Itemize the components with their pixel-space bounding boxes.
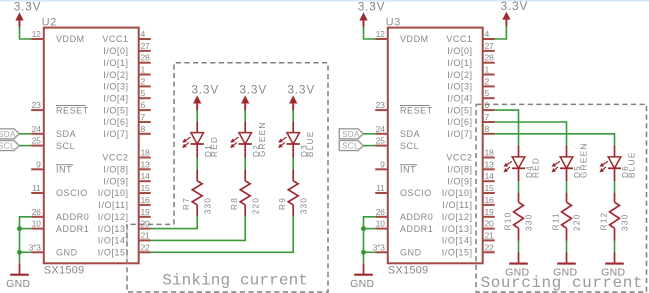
window top strip (decorative) (0, 0, 649, 2)
pin 26 ADDR0 (U3 left) (375, 207, 433, 222)
supply +3.3V D1 anode (191, 83, 219, 111)
svg-text:I/O[2]: I/O[2] (103, 70, 128, 80)
pin 2 I/O[3] (U3 right) (447, 76, 494, 91)
svg-text:I/O[6]: I/O[6] (103, 117, 128, 127)
svg-text:RED: RED (210, 136, 219, 157)
pin 4 VCC1 (U2 right) (102, 29, 150, 44)
wire R9 to pin row 18 (151, 216, 294, 252)
svg-text:BLUE: BLUE (306, 130, 315, 157)
svg-text:VDDM: VDDM (56, 34, 85, 44)
supply +3.3V VDDM U2 (14, 0, 42, 28)
svg-text:R9: R9 (278, 197, 287, 210)
pin 28 I/O[1] (U3 right) (447, 53, 494, 68)
svg-text:OSCIO: OSCIO (400, 188, 432, 198)
wire D1 to R7 (196, 158, 198, 170)
wire GND pin to rail U2 (20, 251, 32, 253)
pin 13 I/O[8] (U3 right) (447, 159, 494, 174)
wire ADDR1 to gnd rail U2 (20, 228, 32, 230)
svg-text:VCC2: VCC2 (446, 153, 472, 163)
svg-text:GND: GND (350, 278, 374, 290)
D6 anode lead (614, 145, 616, 157)
svg-text:330: 330 (299, 197, 308, 215)
svg-text:8: 8 (141, 124, 146, 134)
pin 5 I/O[4] (U3 right) (447, 88, 494, 103)
svg-text:8: 8 (485, 124, 490, 134)
pin 13 I/O[8] (U2 right) (103, 159, 150, 174)
svg-text:I/O[13]: I/O[13] (442, 224, 473, 234)
wire VCC1 U3 to 3.3V (495, 26, 507, 39)
svg-text:I/O[7]: I/O[7] (103, 129, 128, 139)
pin 4 VCC1 (U3 right) (446, 29, 494, 44)
svg-text:3.3V: 3.3V (191, 83, 219, 97)
svg-text:14: 14 (141, 171, 150, 181)
svg-text:SCL: SCL (400, 141, 419, 151)
pin 23 RESET (U2 left) (31, 100, 89, 115)
pin 5 I/O[4] (U2 right) (103, 88, 150, 103)
R10 top lead (518, 193, 520, 202)
svg-text:3*3: 3*3 (29, 242, 42, 252)
svg-text:R8: R8 (230, 197, 239, 210)
svg-text:330: 330 (621, 213, 630, 231)
svg-text:4: 4 (141, 29, 146, 39)
svg-text:I/O[4]: I/O[4] (447, 94, 472, 104)
wire supply to D3 (292, 110, 294, 122)
pin 18 VCC2 (U3 right) (446, 148, 494, 163)
svg-text:13: 13 (141, 159, 150, 169)
resistor R9 330 (288, 181, 298, 205)
svg-text:14: 14 (485, 171, 494, 181)
svg-text:220: 220 (573, 213, 582, 231)
R7 bottom lead (196, 205, 198, 217)
svg-text:GND: GND (6, 278, 30, 290)
D2 anode pin lead (244, 122, 246, 133)
svg-text:4: 4 (485, 29, 490, 39)
resistor R12 330 (610, 202, 620, 228)
pin 8 I/O[7] (U2 right) (103, 124, 150, 139)
svg-text:I/O[5]: I/O[5] (103, 105, 128, 115)
svg-text:I/O[15]: I/O[15] (98, 248, 129, 258)
svg-text:I/O[14]: I/O[14] (98, 236, 129, 246)
svg-text:220: 220 (251, 197, 260, 215)
svg-text:25: 25 (376, 136, 385, 146)
svg-text:I/O[14]: I/O[14] (442, 236, 473, 246)
svg-text:11: 11 (376, 183, 385, 193)
pin 7 I/O[6] (U2 right) (103, 112, 150, 127)
svg-text:SDA: SDA (0, 130, 16, 139)
ground symbol R12 gnd (601, 252, 625, 279)
pin 24 SDA (U2 left) (31, 124, 76, 139)
svg-text:I/O[9]: I/O[9] (103, 176, 128, 186)
R11 top lead (566, 193, 568, 202)
svg-text:3.3V: 3.3V (358, 0, 386, 14)
svg-text:I/O[9]: I/O[9] (447, 176, 472, 186)
wire ADDR1 to gnd rail U3 (364, 228, 376, 230)
svg-text:GREEN: GREEN (258, 121, 267, 157)
supply +3.3V VDDM U3 (358, 0, 386, 28)
svg-text:10: 10 (376, 219, 385, 229)
D2 cathode lead (244, 144, 246, 158)
D3 cathode lead (292, 144, 294, 158)
junction ADDR1/rail U2 (17, 226, 22, 231)
svg-text:SCL: SCL (0, 142, 15, 151)
pin 10 ADDR1 (U3 left) (375, 219, 433, 234)
svg-text:13: 13 (485, 159, 494, 169)
LED D4 RED (504, 157, 525, 172)
pin 19 I/O[12] (U2 right) (98, 207, 151, 222)
wire pin row 6 to D4 (495, 110, 519, 145)
pin 12 VDDM (U2 left) (31, 29, 85, 44)
svg-text:23: 23 (376, 100, 385, 110)
wire R8 to pin row 17 (151, 216, 246, 240)
svg-text:18: 18 (141, 148, 150, 158)
pin 2 I/O[3] (U2 right) (103, 76, 150, 91)
svg-text:3.3V: 3.3V (287, 83, 315, 97)
pin 11 OSCIO (U2 left) (31, 183, 88, 198)
svg-text:R7: R7 (182, 197, 191, 210)
svg-text:24: 24 (32, 124, 41, 134)
svg-text:I/O[3]: I/O[3] (447, 82, 472, 92)
wire SDA flag to pin 24 U3 (363, 133, 375, 135)
pin 10 ADDR1 (U2 left) (31, 219, 89, 234)
wire supply to D2 (244, 110, 246, 122)
IC U2 SX1509 (44, 28, 139, 264)
svg-text:VCC1: VCC1 (446, 34, 472, 44)
svg-text:I/O[0]: I/O[0] (447, 46, 472, 56)
resistor R8 220 (240, 181, 250, 205)
IC U3 SX1509 (388, 28, 483, 264)
svg-text:22: 22 (485, 242, 494, 252)
svg-text:9: 9 (36, 159, 41, 169)
supply +3.3V VCC1 U3 (501, 0, 529, 27)
R9 bottom lead (292, 205, 294, 217)
svg-text:330: 330 (525, 213, 534, 231)
pin 19 I/O[12] (U3 right) (442, 207, 495, 222)
D4 anode lead (518, 145, 520, 157)
pin 14 I/O[9] (U3 right) (447, 171, 494, 186)
svg-text:18: 18 (485, 148, 494, 158)
wire GND pin to rail U3 (364, 251, 376, 253)
pin 28 I/O[1] (U2 right) (103, 53, 150, 68)
junction ADDR1/rail U3 (361, 226, 366, 231)
svg-text:SCL: SCL (342, 142, 359, 151)
svg-text:VCC2: VCC2 (102, 153, 128, 163)
svg-text:7: 7 (485, 112, 490, 122)
R7 top lead (196, 169, 198, 180)
svg-text:INT: INT (56, 165, 72, 175)
net label flag SDA U2 (0, 129, 19, 139)
svg-text:I/O[3]: I/O[3] (103, 82, 128, 92)
svg-text:15: 15 (485, 183, 494, 193)
pin 16 I/O[11] (U3 right) (442, 195, 494, 210)
svg-text:I/O[2]: I/O[2] (447, 70, 472, 80)
svg-text:28: 28 (485, 53, 494, 63)
wire R12 to ground (614, 241, 616, 253)
ground symbol U2 rail (6, 263, 30, 290)
svg-text:I/O[13]: I/O[13] (98, 224, 129, 234)
svg-text:15: 15 (141, 183, 150, 193)
pin 25 SCL (U3 left) (375, 136, 419, 151)
svg-text:5: 5 (141, 88, 146, 98)
wire SCL flag to pin 25 U2 (19, 145, 31, 147)
svg-text:2: 2 (141, 76, 146, 86)
svg-text:22: 22 (141, 242, 150, 252)
pin 6 I/O[5] (U3 right) (447, 100, 494, 115)
pin 8 I/O[7] (U3 right) (447, 124, 494, 139)
svg-text:VDDM: VDDM (400, 34, 429, 44)
pin 3*3 GND (U3 left) (373, 242, 422, 257)
svg-text:I/O[12]: I/O[12] (442, 212, 473, 222)
R12 bottom lead (614, 228, 616, 240)
resistor R10 330 (514, 202, 524, 228)
svg-text:ADDR0: ADDR0 (400, 212, 433, 222)
svg-text:I/O[10]: I/O[10] (98, 188, 129, 198)
svg-text:1: 1 (141, 65, 146, 75)
svg-text:SDA: SDA (400, 129, 420, 139)
R8 top lead (244, 169, 246, 180)
wire D2 to R8 (244, 158, 246, 170)
net label flag SDA U3 (339, 129, 363, 139)
ground symbol R10 gnd (505, 252, 529, 279)
svg-text:I/O[5]: I/O[5] (447, 105, 472, 115)
svg-text:GREEN: GREEN (580, 142, 589, 178)
svg-text:3.3V: 3.3V (239, 83, 267, 97)
svg-text:20: 20 (485, 219, 494, 229)
D5 anode lead (566, 145, 568, 157)
pin 22 I/O[15] (U2 right) (98, 242, 151, 257)
wire SDA flag to pin 24 U2 (19, 133, 31, 135)
pin 20 I/O[13] (U2 right) (98, 219, 151, 234)
svg-text:I/O[7]: I/O[7] (447, 129, 472, 139)
net label flag SCL U2 (0, 141, 19, 151)
pin 27 I/O[0] (U3 right) (447, 41, 494, 56)
R8 bottom lead (244, 205, 246, 217)
svg-text:Sourcing current: Sourcing current (481, 274, 643, 292)
svg-text:SX1509: SX1509 (44, 265, 85, 277)
wire R11 to ground (566, 241, 568, 253)
ground symbol R11 gnd (553, 252, 577, 279)
svg-text:I/O[8]: I/O[8] (103, 165, 128, 175)
svg-text:28: 28 (141, 53, 150, 63)
LED D5 GREEN (552, 157, 573, 172)
wire ADDR0 to gnd rail U3 (364, 217, 376, 263)
ground symbol U3 rail (350, 263, 374, 290)
pin 26 ADDR0 (U2 left) (31, 207, 89, 222)
svg-text:I/O[12]: I/O[12] (98, 212, 129, 222)
pin 15 I/O[10] (U3 right) (442, 183, 495, 198)
R10 bottom lead (518, 228, 520, 240)
D4 cathode lead (518, 168, 520, 181)
svg-text:I/O[4]: I/O[4] (103, 94, 128, 104)
svg-text:I/O[0]: I/O[0] (103, 46, 128, 56)
D1 anode pin lead (196, 122, 198, 133)
svg-text:I/O[10]: I/O[10] (442, 188, 473, 198)
svg-text:SCL: SCL (56, 141, 75, 151)
svg-text:25: 25 (32, 136, 41, 146)
svg-text:I/O[11]: I/O[11] (98, 200, 128, 210)
pin 14 I/O[9] (U2 right) (103, 171, 150, 186)
D6 cathode lead (614, 168, 616, 181)
wire pin row 7 to D5 (495, 122, 567, 145)
pin 7 I/O[6] (U3 right) (447, 112, 494, 127)
svg-text:12: 12 (376, 29, 385, 39)
svg-text:INT: INT (400, 165, 416, 175)
svg-text:6: 6 (141, 100, 146, 110)
svg-text:26: 26 (376, 207, 385, 217)
svg-text:R12: R12 (599, 211, 608, 230)
LED D6 BLUE (600, 157, 621, 172)
wire D4 to R10 (518, 181, 520, 193)
svg-text:ADDR0: ADDR0 (56, 212, 89, 222)
svg-text:7: 7 (141, 112, 146, 122)
svg-text:OSCIO: OSCIO (56, 188, 88, 198)
pin 24 SDA (U3 left) (375, 124, 420, 139)
pin 3*3 GND (U2 left) (29, 242, 78, 257)
svg-text:24: 24 (376, 124, 385, 134)
svg-text:I/O[15]: I/O[15] (442, 248, 473, 258)
svg-text:R11: R11 (551, 212, 560, 230)
pin 1 I/O[2] (U3 right) (447, 65, 494, 80)
pin 1 I/O[2] (U2 right) (103, 65, 150, 80)
svg-text:27: 27 (141, 41, 150, 51)
resistor R7 330 (192, 181, 202, 205)
svg-text:10: 10 (32, 219, 41, 229)
svg-text:GND: GND (56, 248, 78, 258)
svg-text:I/O[1]: I/O[1] (447, 58, 472, 68)
dashed group box: Sourcing current (476, 104, 646, 292)
svg-text:20: 20 (141, 219, 150, 229)
svg-text:330: 330 (203, 197, 212, 215)
supply +3.3V D2 anode (239, 83, 267, 111)
pin 27 I/O[0] (U2 right) (103, 41, 150, 56)
svg-text:3.3V: 3.3V (14, 0, 42, 14)
pin 9 INT (U3 left) (375, 159, 417, 174)
svg-text:GND: GND (400, 248, 422, 258)
svg-text:19: 19 (485, 207, 494, 217)
svg-text:I/O[1]: I/O[1] (103, 58, 128, 68)
dashed group box: Sinking current (127, 63, 328, 292)
svg-text:23: 23 (32, 100, 41, 110)
svg-text:1: 1 (485, 65, 490, 75)
pin 21 I/O[14] (U2 right) (98, 230, 151, 245)
wire ADDR0 to gnd rail U2 (20, 217, 32, 263)
svg-text:9: 9 (380, 159, 385, 169)
svg-text:2: 2 (485, 76, 490, 86)
svg-text:26: 26 (32, 207, 41, 217)
svg-text:SDA: SDA (56, 129, 76, 139)
R11 bottom lead (566, 228, 568, 240)
svg-text:I/O[6]: I/O[6] (447, 117, 472, 127)
svg-text:SX1509: SX1509 (388, 265, 429, 277)
net label flag SCL U3 (339, 141, 363, 151)
svg-text:12: 12 (32, 29, 41, 39)
junction GND/rail U3 (361, 250, 366, 255)
svg-text:U3: U3 (386, 16, 401, 28)
svg-text:16: 16 (141, 195, 150, 205)
svg-text:11: 11 (32, 183, 41, 193)
svg-text:21: 21 (485, 230, 494, 240)
wire R10 to ground (518, 241, 520, 253)
svg-text:I/O[11]: I/O[11] (442, 200, 472, 210)
pin 22 I/O[15] (U3 right) (442, 242, 495, 257)
svg-text:ADDR1: ADDR1 (56, 224, 89, 234)
R9 top lead (292, 169, 294, 180)
pin 15 I/O[10] (U2 right) (98, 183, 151, 198)
LED D2 GREEN (231, 133, 252, 148)
LED D3 BLUE (279, 133, 300, 148)
svg-text:3*3: 3*3 (373, 242, 386, 252)
svg-text:5: 5 (485, 88, 490, 98)
wire supply to VDDM pin 12 U2 (20, 27, 32, 39)
D5 cathode lead (566, 168, 568, 181)
svg-text:VCC1: VCC1 (102, 34, 128, 44)
svg-text:27: 27 (485, 41, 494, 51)
svg-text:RED: RED (532, 157, 541, 178)
pin 20 I/O[13] (U3 right) (442, 219, 495, 234)
pin 18 VCC2 (U2 right) (102, 148, 150, 163)
svg-text:R10: R10 (503, 211, 512, 230)
R12 top lead (614, 193, 616, 202)
pin 11 OSCIO (U3 left) (375, 183, 432, 198)
junction GND/rail U2 (17, 250, 22, 255)
svg-text:19: 19 (141, 207, 150, 217)
svg-text:BLUE: BLUE (628, 151, 637, 178)
svg-text:ADDR1: ADDR1 (400, 224, 433, 234)
pin 9 INT (U2 left) (31, 159, 73, 174)
svg-text:RESET: RESET (56, 105, 89, 115)
supply +3.3V D3 anode (287, 83, 315, 111)
pin 25 SCL (U2 left) (31, 136, 75, 151)
LED D1 RED (183, 133, 204, 148)
pin 23 RESET (U3 left) (375, 100, 433, 115)
wire supply to D1 (196, 110, 198, 122)
wire pin row 8 to D6 (495, 134, 615, 146)
svg-text:RESET: RESET (400, 105, 433, 115)
pin 12 VDDM (U3 left) (375, 29, 429, 44)
wire supply to VDDM pin 12 U3 (364, 27, 376, 39)
wire D5 to R11 (566, 181, 568, 193)
svg-text:I/O[8]: I/O[8] (447, 165, 472, 175)
svg-text:SDA: SDA (342, 130, 360, 139)
pin 16 I/O[11] (U2 right) (98, 195, 150, 210)
svg-text:21: 21 (141, 230, 150, 240)
svg-text:16: 16 (485, 195, 494, 205)
svg-text:3.3V: 3.3V (501, 0, 529, 13)
pin 21 I/O[14] (U3 right) (442, 230, 495, 245)
pin 6 I/O[5] (U2 right) (103, 100, 150, 115)
svg-text:Sinking current: Sinking current (162, 271, 308, 289)
wire R7 to pin row 16 (151, 216, 198, 228)
svg-text:U2: U2 (42, 16, 57, 28)
D1 cathode lead (196, 144, 198, 158)
D3 anode pin lead (292, 122, 294, 133)
wire D6 to R12 (614, 181, 616, 193)
resistor R11 220 (562, 202, 572, 228)
wire D3 to R9 (292, 158, 294, 170)
wire SCL flag to pin 25 U3 (363, 145, 375, 147)
